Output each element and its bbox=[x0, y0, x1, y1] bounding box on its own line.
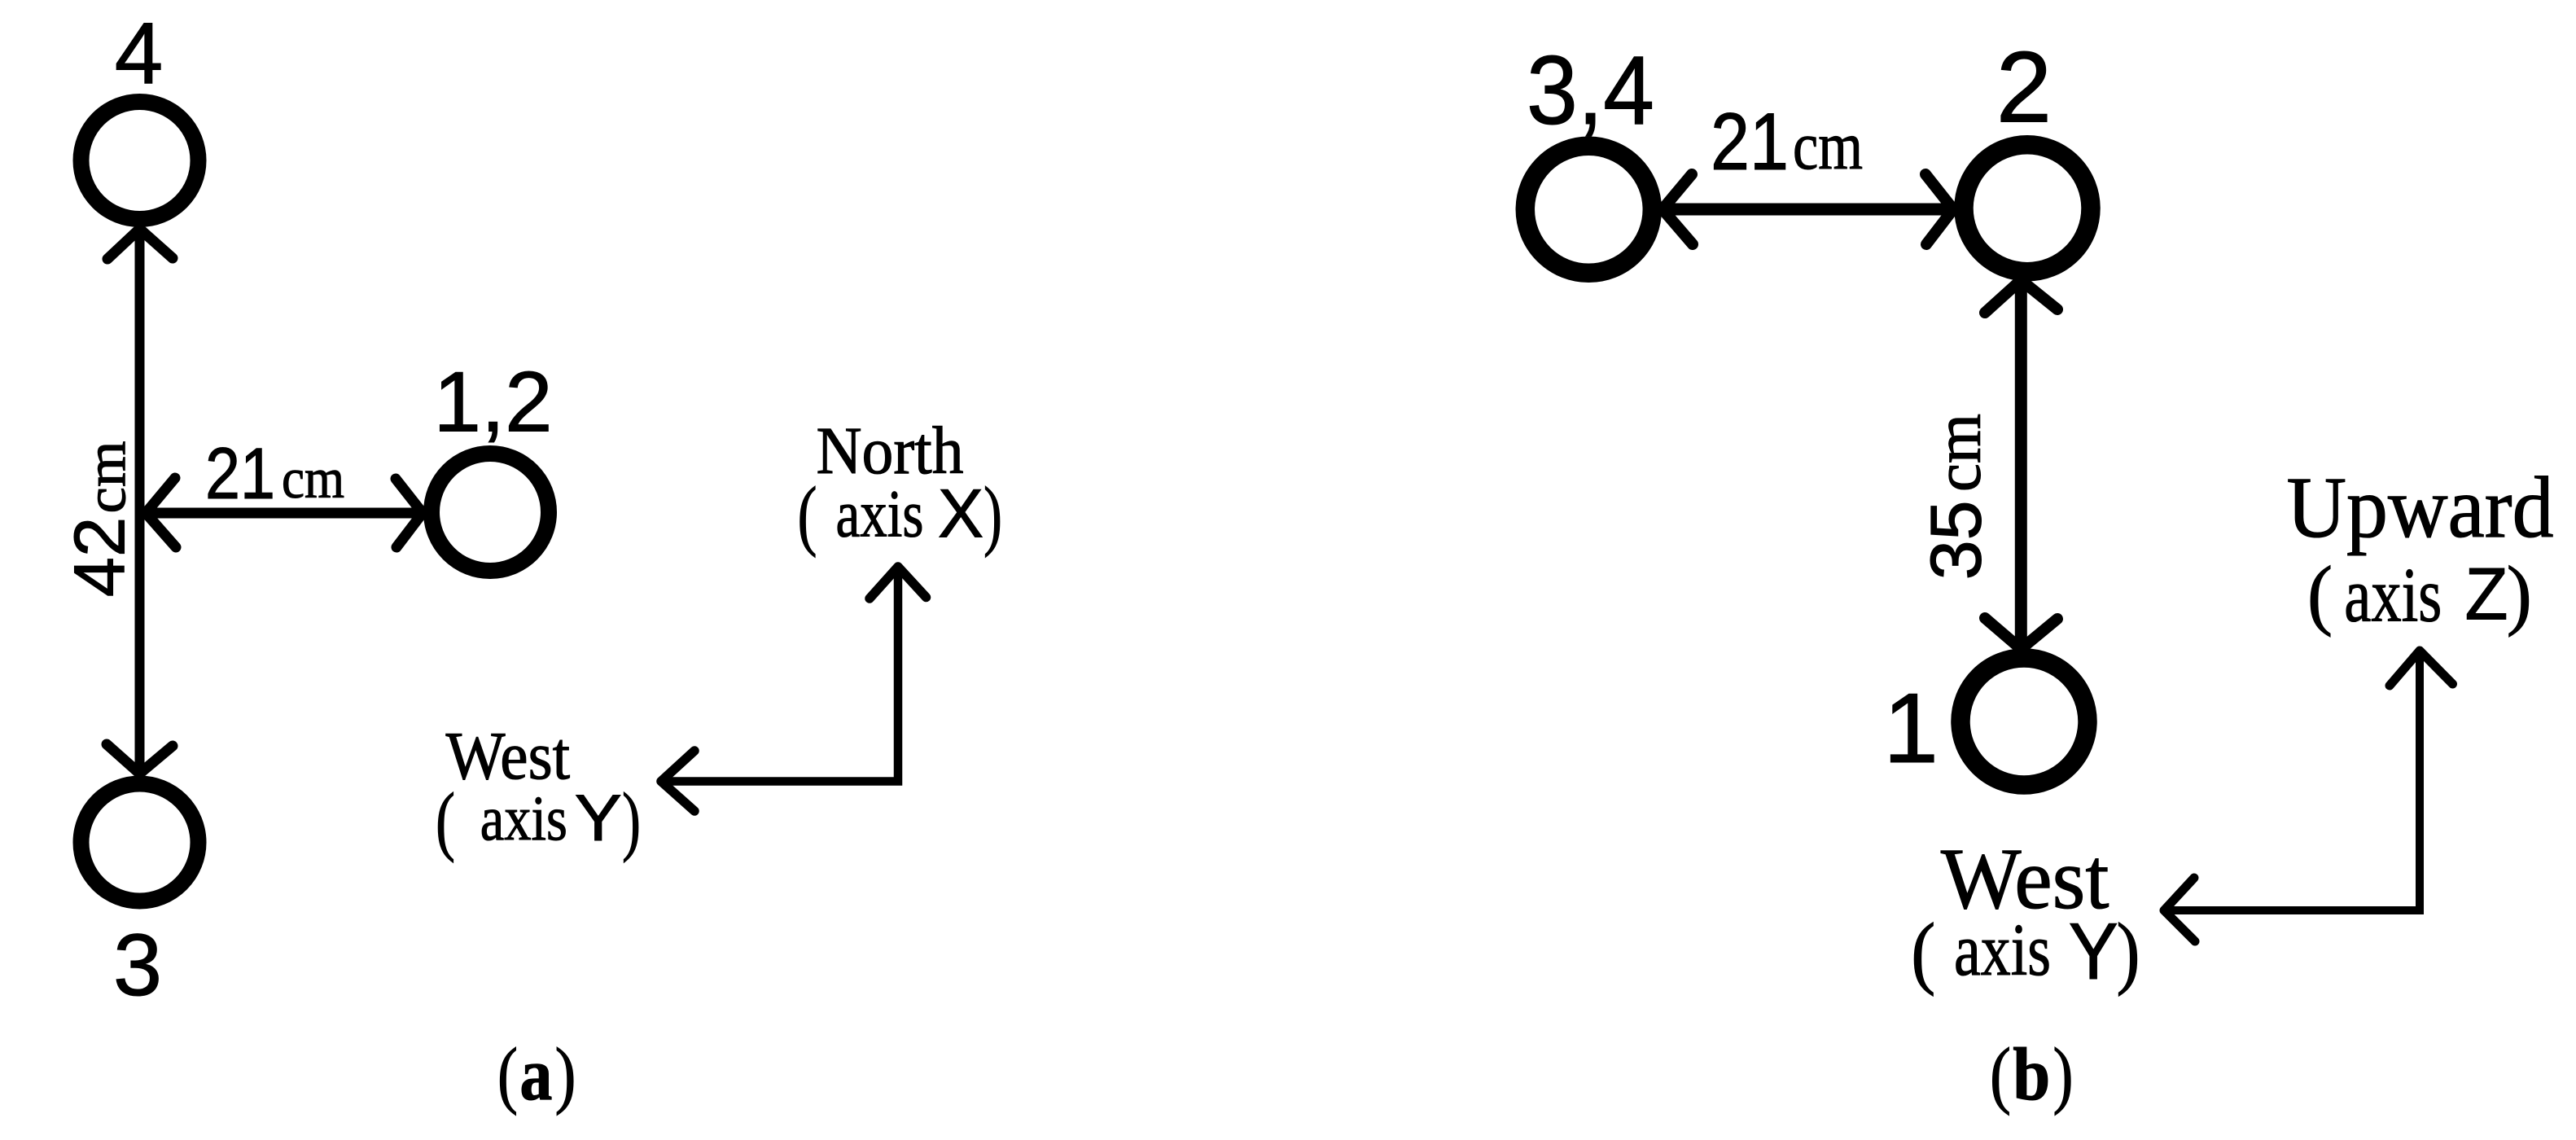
axis b arrowhead left (West) bbox=[2164, 878, 2195, 941]
svg-text:): ) bbox=[2053, 1033, 2074, 1116]
svg-text:3: 3 bbox=[113, 915, 162, 1014]
svg-text:Z: Z bbox=[2465, 553, 2508, 635]
axis a arrowhead up (North) bbox=[870, 567, 927, 598]
svg-text:2: 2 bbox=[1996, 33, 2052, 144]
arrowhead up at node 2 bbox=[1985, 280, 2057, 313]
wire vertical 35cm double arrow b shaft bbox=[2015, 283, 2027, 647]
axis a arrowhead left (West) bbox=[661, 751, 694, 811]
arrowhead up at node 4 bbox=[107, 229, 173, 259]
svg-text:cm: cm bbox=[76, 441, 138, 514]
svg-text:): ) bbox=[555, 1033, 576, 1116]
svg-text:1,2: 1,2 bbox=[434, 355, 553, 450]
svg-text:Y: Y bbox=[2069, 906, 2118, 996]
arrowhead right at node 1,2 bbox=[396, 479, 423, 547]
arrowhead down at node 3 bbox=[107, 744, 173, 774]
svg-text:cm: cm bbox=[1793, 108, 1863, 184]
node 3 circle bbox=[81, 784, 199, 901]
node 2 circle bbox=[1964, 145, 2091, 272]
svg-text:35: 35 bbox=[1916, 500, 1996, 580]
axis b arrowhead up (Upward) bbox=[2390, 651, 2453, 686]
svg-text:a: a bbox=[519, 1033, 552, 1116]
svg-text:42: 42 bbox=[59, 517, 140, 597]
svg-text:3,4: 3,4 bbox=[1527, 36, 1654, 145]
axis arrow b (Upward / West) bbox=[2168, 653, 2420, 910]
svg-text:): ) bbox=[984, 471, 1002, 558]
svg-text:b: b bbox=[2013, 1033, 2050, 1116]
wire horizontal 21cm double arrow shaft bbox=[146, 508, 422, 519]
svg-text:): ) bbox=[2117, 906, 2140, 997]
svg-text:(: ( bbox=[1911, 906, 1935, 997]
svg-text:(: ( bbox=[2307, 550, 2333, 638]
svg-text:axis: axis bbox=[480, 783, 567, 854]
svg-text:): ) bbox=[622, 777, 641, 863]
wire horizontal 21cm double arrow b shaft bbox=[1664, 204, 1952, 216]
svg-text:axis: axis bbox=[1954, 909, 2051, 991]
svg-text:21: 21 bbox=[1711, 96, 1789, 186]
arrowhead down at node 1 bbox=[1985, 618, 2057, 649]
arrowhead left at node 3,4 bbox=[1663, 174, 1693, 244]
svg-text:4: 4 bbox=[115, 4, 164, 102]
axis arrow a (North / West) bbox=[665, 570, 898, 782]
panel (a) geometry bbox=[81, 102, 927, 901]
svg-text:axis: axis bbox=[2344, 551, 2442, 638]
svg-text:axis: axis bbox=[836, 476, 924, 551]
svg-text:(: ( bbox=[798, 471, 817, 558]
svg-text:21: 21 bbox=[205, 432, 275, 514]
svg-text:(: ( bbox=[1990, 1033, 2011, 1116]
svg-text:Y: Y bbox=[575, 782, 622, 855]
svg-text:cm: cm bbox=[1923, 414, 1995, 492]
arrowhead right at node 2 bbox=[1925, 174, 1953, 244]
svg-text:): ) bbox=[2507, 550, 2532, 638]
node 1 circle bbox=[1960, 658, 2088, 785]
svg-text:1: 1 bbox=[1883, 673, 1939, 783]
arrowhead left at vertical wire bbox=[146, 478, 176, 547]
svg-text:Upward: Upward bbox=[2287, 460, 2554, 556]
panel (b) geometry bbox=[1525, 145, 2452, 941]
svg-text:(: ( bbox=[497, 1033, 518, 1116]
svg-text:(: ( bbox=[436, 777, 455, 863]
wire vertical 42cm double arrow shaft bbox=[135, 228, 145, 774]
svg-text:cm: cm bbox=[282, 448, 344, 511]
node 3,4 circle bbox=[1525, 146, 1652, 273]
svg-text:X: X bbox=[938, 475, 984, 551]
node 4 circle bbox=[81, 102, 199, 219]
node 1,2 circle bbox=[432, 454, 549, 571]
